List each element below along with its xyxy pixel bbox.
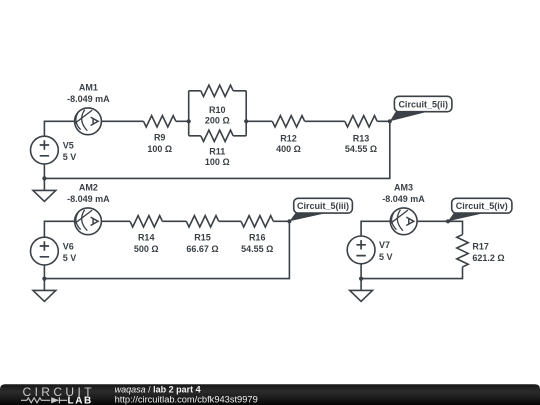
svg-text:V7: V7 — [379, 240, 390, 250]
svg-text:AM3: AM3 — [394, 182, 413, 192]
svg-text:5 V: 5 V — [63, 152, 77, 162]
svg-text:400 Ω: 400 Ω — [276, 144, 301, 154]
svg-text:200 Ω: 200 Ω — [205, 116, 230, 126]
svg-text:-8.049 mA: -8.049 mA — [382, 194, 425, 204]
svg-text:R17: R17 — [472, 241, 489, 251]
svg-text:100 Ω: 100 Ω — [147, 144, 172, 154]
svg-text:54.55 Ω: 54.55 Ω — [241, 244, 273, 254]
svg-text:-8.049 mA: -8.049 mA — [67, 94, 110, 104]
svg-text:R14: R14 — [138, 232, 155, 242]
svg-text:R10: R10 — [209, 105, 226, 115]
svg-text:500 Ω: 500 Ω — [134, 244, 159, 254]
svg-text:Circuit_5(ii): Circuit_5(ii) — [398, 100, 448, 110]
svg-text:5 V: 5 V — [379, 252, 393, 262]
svg-text:waqasa / lab 2 part 4: waqasa / lab 2 part 4 — [115, 384, 201, 394]
svg-text:AM2: AM2 — [79, 182, 98, 192]
svg-text:54.55 Ω: 54.55 Ω — [345, 144, 377, 154]
svg-text:LAB: LAB — [68, 395, 93, 405]
svg-text:R11: R11 — [209, 147, 225, 157]
svg-text:V6: V6 — [63, 241, 74, 251]
svg-text:Circuit_5(iv): Circuit_5(iv) — [456, 201, 508, 211]
svg-text:AM1: AM1 — [79, 82, 98, 92]
svg-text:R15: R15 — [194, 232, 211, 242]
svg-text:100 Ω: 100 Ω — [205, 157, 230, 167]
svg-text:R13: R13 — [353, 134, 370, 144]
svg-text:R16: R16 — [249, 232, 266, 242]
svg-text:V5: V5 — [63, 140, 74, 150]
svg-text:http://circuitlab.com/cbfk943s: http://circuitlab.com/cbfk943st9979 — [115, 395, 258, 405]
svg-text:R9: R9 — [154, 132, 166, 142]
svg-text:Circuit_5(iii): Circuit_5(iii) — [297, 201, 349, 211]
svg-text:66.67 Ω: 66.67 Ω — [186, 244, 218, 254]
svg-text:R12: R12 — [280, 134, 297, 144]
svg-text:621.2 Ω: 621.2 Ω — [472, 253, 504, 263]
svg-text:-8.049 mA: -8.049 mA — [67, 194, 110, 204]
svg-text:5 V: 5 V — [63, 253, 77, 263]
